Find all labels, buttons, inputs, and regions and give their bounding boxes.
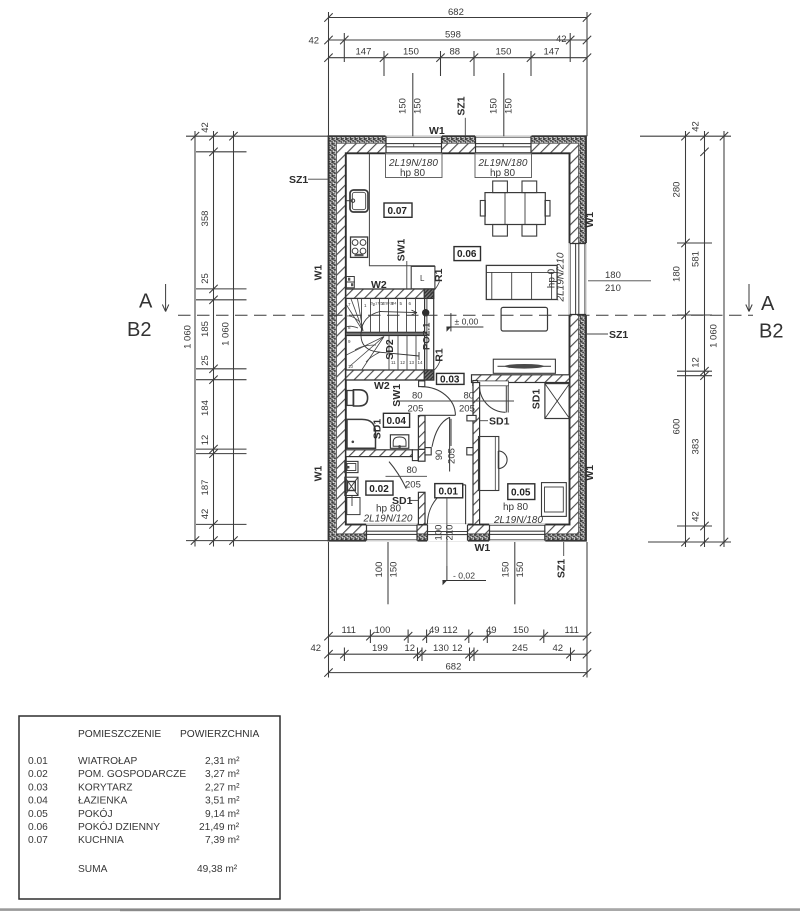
interior wall W2 lower (stairs/corridor) xyxy=(346,370,434,387)
svg-text:42: 42 xyxy=(553,643,564,654)
svg-text:205: 205 xyxy=(405,480,421,491)
svg-text:SZ1: SZ1 xyxy=(609,329,628,341)
column R1 lower xyxy=(424,370,434,380)
svg-text:80: 80 xyxy=(412,391,423,402)
wall label SW1 upper (rotated) with leader xyxy=(396,238,408,289)
window centerline top-right with 150/150 labels xyxy=(503,73,505,136)
svg-text:ŁAZIENKA: ŁAZIENKA xyxy=(78,796,127,807)
column R1 upper xyxy=(424,289,434,298)
svg-text:150: 150 xyxy=(413,98,424,114)
utility room 0.02 fixtures xyxy=(345,461,360,514)
leader from 0.01 box down xyxy=(446,498,448,566)
svg-text:12: 12 xyxy=(691,357,702,368)
svg-text:180: 180 xyxy=(605,270,621,281)
svg-text:14: 14 xyxy=(418,360,424,365)
svg-text:581: 581 xyxy=(691,251,702,267)
legend row 0.05 xyxy=(28,807,240,820)
stair tread numbers xyxy=(348,301,423,369)
fraction line for door sizes xyxy=(399,400,514,402)
svg-text:2L19N/180: 2L19N/180 xyxy=(493,515,543,526)
svg-text:0.06: 0.06 xyxy=(28,822,48,833)
room label box 0.04 xyxy=(383,413,409,427)
svg-text:88: 88 xyxy=(450,47,461,58)
svg-text:5: 5 xyxy=(400,301,403,306)
bottom dim row 111/100/49/112/49/150/111 xyxy=(324,630,591,644)
wall 0.04/0.03 vertical (bathroom right) xyxy=(418,416,425,450)
svg-text:0.01: 0.01 xyxy=(28,756,48,767)
door 0.04 bathroom (80/205) xyxy=(420,387,456,416)
stair walk line with arrow xyxy=(361,310,419,360)
svg-text:184: 184 xyxy=(200,400,211,416)
svg-text:185: 185 xyxy=(200,321,211,337)
bottom window centerline 0.02 with 100/150 labels xyxy=(387,542,389,604)
svg-text:R1: R1 xyxy=(433,268,445,282)
svg-text:B2: B2 xyxy=(759,321,783,343)
svg-text:42: 42 xyxy=(311,643,322,654)
svg-text:49: 49 xyxy=(486,625,497,636)
shower xyxy=(347,419,376,448)
door label SD1 near 0.02 with leader xyxy=(392,495,418,507)
svg-text:150: 150 xyxy=(403,47,419,58)
room label box 0.01 xyxy=(435,484,463,498)
legend row 0.06 xyxy=(28,820,240,833)
svg-text:POZ.1: POZ.1 xyxy=(422,322,433,350)
room label box 0.07 xyxy=(384,203,412,217)
wall 0.01/0.05 vertical xyxy=(473,383,480,525)
svg-text:150: 150 xyxy=(389,562,400,578)
exterior wall outlines xyxy=(329,136,587,541)
jamb left of 0.05 wall xyxy=(467,448,473,455)
svg-text:150: 150 xyxy=(504,98,515,114)
svg-text:150: 150 xyxy=(513,625,529,636)
svg-text:POMIESZCZENIE: POMIESZCZENIE xyxy=(78,729,161,740)
svg-text:205: 205 xyxy=(408,404,424,415)
door casing 0.05 xyxy=(478,381,509,386)
svg-text:2L19N/120: 2L19N/120 xyxy=(363,514,413,525)
door size 100/210 entrance (rotated) xyxy=(434,525,456,541)
gas meter boxes on left wall xyxy=(346,277,354,288)
svg-text:150: 150 xyxy=(489,98,500,114)
svg-text:hp 80: hp 80 xyxy=(490,168,515,179)
legend row 0.03 xyxy=(28,782,240,793)
svg-text:280: 280 xyxy=(672,182,683,198)
kitchen sink xyxy=(346,190,368,212)
svg-text:210: 210 xyxy=(605,283,621,294)
legend row 0.04 xyxy=(28,796,240,807)
svg-text:9: 9 xyxy=(348,339,351,344)
top dim row 42/598/42 xyxy=(324,33,591,62)
svg-text:0.02: 0.02 xyxy=(28,769,48,780)
svg-text:682: 682 xyxy=(446,661,462,672)
stair lower flight treads xyxy=(389,336,416,370)
svg-text:SD1: SD1 xyxy=(372,419,384,440)
washbasin xyxy=(390,435,408,449)
svg-text:245: 245 xyxy=(512,643,528,654)
left dim line 1060 inner xyxy=(229,131,237,547)
lintel label SZ1 right with leader xyxy=(586,329,628,341)
door 0.03/0.01 opening (90/205) xyxy=(432,417,451,472)
door 0.02 (80/205) xyxy=(389,462,406,489)
svg-text:SUMA: SUMA xyxy=(78,864,108,875)
jamb right of junction xyxy=(425,448,431,455)
jamb below W2 lower xyxy=(419,381,425,387)
svg-text:POWIERZCHNIA: POWIERZCHNIA xyxy=(180,729,259,740)
svg-text:SZ1: SZ1 xyxy=(289,174,308,186)
svg-text:- 0,02: - 0,02 xyxy=(453,571,475,581)
svg-text:7: 7 xyxy=(348,302,351,307)
svg-text:42: 42 xyxy=(309,36,320,47)
svg-text:KORYTARZ: KORYTARZ xyxy=(78,782,133,793)
stair upper winders xyxy=(346,299,363,331)
svg-text:199: 199 xyxy=(372,643,388,654)
svg-text:0.07: 0.07 xyxy=(388,206,408,217)
svg-text:80: 80 xyxy=(407,465,418,476)
wall 0.01/0.02 vertical lower xyxy=(418,492,425,524)
door size 80/205 room 0.02 xyxy=(386,465,428,491)
svg-text:90: 90 xyxy=(434,450,445,461)
svg-text:150: 150 xyxy=(398,98,409,114)
window 2L19N/120 bottom (room 0.02) xyxy=(366,524,418,542)
jamb at 0.05 top wall left xyxy=(473,381,478,386)
svg-text:598: 598 xyxy=(445,30,461,41)
svg-text:2L 17,5/28=184: 2L 17,5/28=184 xyxy=(370,302,396,306)
wall junction 0.01/0.02/0.03 xyxy=(418,449,425,461)
window 2L19N/180 top-left xyxy=(386,135,443,154)
svg-text:13: 13 xyxy=(409,360,415,365)
svg-text:112: 112 xyxy=(443,625,458,636)
left dim line 1060 outer xyxy=(191,131,199,547)
stair upper flight treads xyxy=(362,298,416,332)
stair lower winders xyxy=(346,337,384,370)
bottom dim row 682 xyxy=(324,668,591,676)
door 0.05 (80/205) xyxy=(480,386,509,413)
svg-text:21,49 m²: 21,49 m² xyxy=(199,822,240,833)
fridge L xyxy=(411,266,435,289)
legend row 0.01 xyxy=(28,756,240,767)
room label box 0.05 xyxy=(508,484,535,500)
svg-text:0.03: 0.03 xyxy=(440,375,460,386)
top dim row 682 xyxy=(324,13,591,21)
column label R1 upper (rotated) with leader xyxy=(431,268,446,293)
svg-text:80: 80 xyxy=(464,391,475,402)
svg-text:W1: W1 xyxy=(475,542,491,554)
wall 0.05 top xyxy=(472,375,570,383)
svg-text:0.03: 0.03 xyxy=(28,782,48,793)
svg-text:1 060: 1 060 xyxy=(709,324,720,348)
svg-text:111: 111 xyxy=(565,625,579,636)
left dim line segments xyxy=(196,131,247,547)
svg-text:100: 100 xyxy=(375,625,391,636)
svg-text:205: 205 xyxy=(459,404,475,415)
column label R1 lower (rotated) with leader xyxy=(431,348,446,372)
svg-text:L: L xyxy=(420,274,425,283)
svg-text:12: 12 xyxy=(200,435,211,446)
svg-text:0.07: 0.07 xyxy=(28,835,48,846)
couch xyxy=(486,265,557,299)
section arrow right xyxy=(746,284,752,312)
level marker +-0,00 xyxy=(446,313,483,332)
svg-text:W1: W1 xyxy=(584,465,596,481)
svg-text:R1: R1 xyxy=(434,348,446,362)
window annotation balcony right (rotated) xyxy=(547,252,567,302)
svg-text:hp 80: hp 80 xyxy=(503,502,528,513)
right dim line A (280/180/600) xyxy=(681,131,689,547)
svg-text:8: 8 xyxy=(348,325,351,330)
svg-text:42: 42 xyxy=(200,509,211,520)
lintel label SZ1 bottom (rotated) with leader xyxy=(556,542,568,578)
bottom window centerline 0.05 with 150/150 labels xyxy=(514,542,516,604)
door size 80/205 room 0.05 xyxy=(459,391,475,415)
svg-text:383: 383 xyxy=(691,439,702,455)
dining table xyxy=(480,181,550,236)
svg-text:2,31 m²: 2,31 m² xyxy=(205,756,240,767)
chair at desk xyxy=(498,451,507,469)
wardrobe SD1 in 0.05 xyxy=(545,384,570,419)
svg-text:12: 12 xyxy=(452,643,463,654)
svg-text:0.01: 0.01 xyxy=(439,486,459,497)
left connector lines xyxy=(186,136,329,540)
svg-text:A: A xyxy=(139,291,153,313)
svg-text:187: 187 xyxy=(200,480,211,496)
svg-text:49: 49 xyxy=(429,625,440,636)
svg-text:A: A xyxy=(761,293,775,315)
jamb on 0.01/0.05 wall top xyxy=(467,415,476,421)
svg-text:9,14 m²: 9,14 m² xyxy=(205,809,240,820)
svg-text:hp 80: hp 80 xyxy=(400,168,425,179)
legend row 0.02 xyxy=(28,769,240,780)
interior wall W2 upper (kitchen/stairs) xyxy=(346,289,434,298)
svg-text:1: 1 xyxy=(364,303,367,308)
legend suma row xyxy=(78,864,238,875)
svg-text:100: 100 xyxy=(374,562,385,578)
svg-text:42: 42 xyxy=(691,511,702,522)
door size 80/205 bathroom xyxy=(408,391,424,415)
window annotation box top-right xyxy=(475,153,532,179)
toilet xyxy=(347,390,368,406)
svg-text:W1: W1 xyxy=(313,264,325,280)
svg-text:W2: W2 xyxy=(371,279,387,291)
scan artifact bottom edge xyxy=(0,908,800,911)
svg-text:0.06: 0.06 xyxy=(457,249,477,260)
svg-text:SD1: SD1 xyxy=(531,389,543,410)
right dim line B (42/581/12/383/42) xyxy=(700,131,708,547)
exterior wall W1 insulation ring xyxy=(329,136,587,541)
stair mid landing divider xyxy=(346,332,427,335)
kitchen stove xyxy=(351,237,368,257)
svg-text:WIATROŁAP: WIATROŁAP xyxy=(78,756,137,767)
exterior wall W1 structural ring xyxy=(337,143,579,534)
svg-text:1 060: 1 060 xyxy=(183,325,194,349)
svg-text:11: 11 xyxy=(391,360,396,365)
bottom extension lines xyxy=(329,542,588,678)
TV set xyxy=(498,364,552,369)
right dim line C 1060 xyxy=(720,131,728,547)
level marker -0,02 outside entrance xyxy=(442,566,486,585)
window 2L19N/180 bottom (room 0.05) xyxy=(489,524,545,542)
right connector lines and stubs xyxy=(640,136,731,542)
entrance door opening bottom xyxy=(427,524,468,542)
svg-text:150: 150 xyxy=(515,562,526,578)
coffee table xyxy=(501,307,547,331)
svg-text:0.02: 0.02 xyxy=(369,484,389,495)
svg-text:7,39 m²: 7,39 m² xyxy=(205,835,240,846)
svg-text:682: 682 xyxy=(448,7,464,18)
room label box 0.02 xyxy=(366,481,393,495)
svg-text:100: 100 xyxy=(434,525,445,541)
svg-text:W2: W2 xyxy=(374,380,390,392)
svg-text:0.05: 0.05 xyxy=(511,487,531,498)
svg-text:6: 6 xyxy=(409,301,412,306)
svg-text:600: 600 xyxy=(672,419,683,435)
TV cabinet xyxy=(493,359,555,373)
svg-text:0.04: 0.04 xyxy=(28,796,48,807)
svg-text:3,27 m²: 3,27 m² xyxy=(205,769,240,780)
svg-text:150: 150 xyxy=(496,47,512,58)
svg-text:150: 150 xyxy=(501,562,512,578)
svg-text:SD1: SD1 xyxy=(489,416,510,428)
svg-text:SD1: SD1 xyxy=(392,495,413,507)
cabinet in 0.05 xyxy=(542,483,567,517)
svg-text:± 0,00: ± 0,00 xyxy=(455,317,479,327)
section arrow left xyxy=(162,284,168,312)
lintel label SZ1 top (rotated) with leader xyxy=(455,96,467,136)
jamb at bathroom wall end xyxy=(412,450,418,461)
svg-text:W1: W1 xyxy=(584,212,596,228)
balcony window size 180/210 xyxy=(588,270,651,294)
svg-text:POKÓJ DZIENNY: POKÓJ DZIENNY xyxy=(78,820,160,833)
room label box 0.06 xyxy=(454,247,481,261)
kitchen counter edge xyxy=(369,154,435,266)
svg-text:210: 210 xyxy=(445,525,456,541)
svg-text:2L19N/210: 2L19N/210 xyxy=(556,252,567,302)
svg-text:W1: W1 xyxy=(429,125,445,137)
svg-text:42: 42 xyxy=(200,122,211,133)
legend row 0.07 xyxy=(28,835,240,846)
bottom dim row 42/199/12/130/12/245/42 xyxy=(324,648,591,662)
svg-text:111: 111 xyxy=(342,625,356,636)
svg-text:180: 180 xyxy=(672,266,683,282)
column at stair corner xyxy=(422,309,429,316)
svg-text:3,51 m²: 3,51 m² xyxy=(205,796,240,807)
room label box 0.03 xyxy=(437,373,465,385)
svg-text:W1: W1 xyxy=(313,465,325,481)
balcony window 2L19N/210 right wall xyxy=(569,243,587,315)
svg-text:42: 42 xyxy=(556,34,567,45)
svg-text:SD2: SD2 xyxy=(384,339,396,360)
svg-text:12: 12 xyxy=(405,643,416,654)
svg-text:SW1: SW1 xyxy=(391,384,403,407)
svg-text:358: 358 xyxy=(200,211,211,227)
svg-text:0.04: 0.04 xyxy=(387,416,407,427)
door size 90/205 (rotated) xyxy=(434,448,458,464)
svg-text:10: 10 xyxy=(348,364,354,369)
svg-text:SZ1: SZ1 xyxy=(455,96,467,115)
door label SD1 near 0.05 with leader xyxy=(480,416,510,428)
svg-text:49,38 m²: 49,38 m² xyxy=(197,864,238,875)
svg-text:B2: B2 xyxy=(127,319,151,341)
svg-text:POKÓJ: POKÓJ xyxy=(78,807,113,820)
stair well right edge lines xyxy=(424,298,426,370)
entrance door (100/210) xyxy=(427,485,465,524)
svg-text:1 060: 1 060 xyxy=(221,322,232,346)
lintel label SZ1 left with leader xyxy=(289,174,329,186)
svg-text:POM. GOSPODARCZE: POM. GOSPODARCZE xyxy=(78,769,186,780)
window 2L19N/180 top-right xyxy=(475,135,532,154)
svg-text:12: 12 xyxy=(400,360,406,365)
window annotation box top-left xyxy=(386,153,443,179)
svg-text:25: 25 xyxy=(200,355,211,366)
top extension lines xyxy=(329,12,588,136)
legend table frame xyxy=(19,716,280,899)
svg-text:130: 130 xyxy=(433,643,449,654)
svg-text:2,27 m²: 2,27 m² xyxy=(205,782,240,793)
svg-text:205: 205 xyxy=(447,448,458,464)
window annotation 0.05 xyxy=(493,502,543,526)
section line A-B2 dashed xyxy=(178,314,753,316)
svg-text:KUCHNIA: KUCHNIA xyxy=(78,835,124,846)
svg-text:147: 147 xyxy=(544,47,560,58)
window centerline top-left with 150/150 labels xyxy=(412,73,414,136)
svg-text:0.05: 0.05 xyxy=(28,809,48,820)
svg-text:SZ1: SZ1 xyxy=(556,559,568,578)
window annotation 0.02 xyxy=(363,504,413,525)
desk in 0.05 xyxy=(479,437,499,491)
svg-text:42: 42 xyxy=(691,121,702,132)
svg-text:147: 147 xyxy=(356,47,372,58)
top dim row 147/150/88/150/147 xyxy=(324,51,591,76)
svg-text:SW1: SW1 xyxy=(396,238,408,261)
bathroom bottom wall xyxy=(346,450,418,461)
svg-text:25: 25 xyxy=(200,273,211,284)
